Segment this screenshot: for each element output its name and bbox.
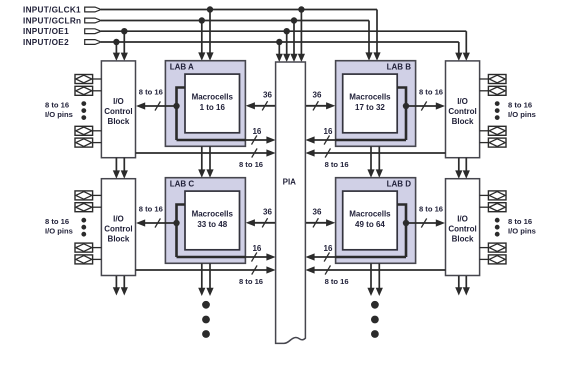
svg-text:INPUT/GLCK1: INPUT/GLCK1: [23, 5, 81, 14]
I/O pin (upper left 3): [75, 126, 101, 135]
LAB D block: [336, 178, 416, 264]
8-16 bus LAB B to I/O block: [406, 101, 445, 110]
svg-text:I/O: I/O: [457, 215, 468, 224]
dots upper left pins: [81, 101, 86, 120]
wire upper to lower I/O block (right 1): [455, 158, 462, 179]
label 8 to 16 I/O pins (lower left): [45, 217, 73, 236]
label PIA: [283, 177, 297, 186]
8-16 bus right I/O to PIA (lower): [305, 265, 445, 274]
label 8 to 16 (8-16 bus LAB A to I/O block): [139, 88, 163, 97]
wire below lower left I/O block (1): [113, 276, 120, 296]
svg-text:Control: Control: [448, 107, 476, 116]
svg-text:Macrocells: Macrocells: [349, 210, 391, 219]
wire GCLRn drop to PIA: [290, 17, 297, 62]
label 8 to 16 I/O pins (upper left): [45, 100, 73, 119]
LAB D local feedback wire: [397, 205, 406, 258]
LAB C block: [165, 178, 245, 264]
I/O pin (upper right 1): [480, 75, 506, 84]
wire OE1 drop to left I/O block: [121, 28, 128, 61]
label 16 (16 bus LAB A to PIA): [252, 127, 261, 136]
label 36 (36 bus PIA to LAB A): [263, 91, 272, 100]
wire INPUT/OE1: [101, 31, 470, 61]
8-16 bus left I/O to PIA (lower): [136, 265, 276, 274]
label 8 to 16 I/O pins (lower right): [508, 217, 536, 236]
svg-text:33 to 48: 33 to 48: [197, 220, 227, 229]
svg-text:LAB B: LAB B: [387, 62, 412, 71]
svg-text:16: 16: [324, 244, 333, 253]
I/O control block (lower left): [101, 179, 135, 276]
I/O pin (upper right 2): [480, 86, 506, 95]
8-16 bus left I/O to PIA (upper): [136, 148, 276, 157]
wire GLCK1 drop to PIA: [298, 6, 305, 62]
svg-text:Block: Block: [108, 117, 130, 126]
macrocells 49 to 64 box: [343, 191, 398, 250]
svg-text:36: 36: [263, 208, 272, 217]
wire below LAB C (2): [206, 263, 213, 296]
svg-text:8 to 16: 8 to 16: [325, 160, 349, 169]
continuation dots below LAB C: [202, 301, 210, 338]
input label INPUT/GLCK1: [23, 5, 81, 14]
svg-text:36: 36: [313, 208, 322, 217]
I/O pin (lower left 2): [75, 203, 101, 212]
I/O pin (upper left 2): [75, 86, 101, 95]
svg-text:8 to 16: 8 to 16: [139, 205, 163, 214]
label 36 (36 bus PIA to LAB C): [263, 208, 272, 217]
36 bus PIA to LAB A: [246, 101, 276, 110]
input label INPUT/OE1: [23, 27, 69, 36]
label 8 to 16 (8-16 bus LAB D to I/O block): [419, 205, 443, 214]
macrocells 17 to 32 box: [343, 74, 398, 133]
wire INPUT/GLCK1: [101, 10, 381, 61]
I/O pin (upper left 1): [75, 75, 101, 84]
wire OE1 drop to PIA: [283, 28, 290, 62]
dots lower left pins: [81, 218, 86, 237]
input label INPUT/OE2: [23, 38, 69, 47]
macrocells 1 to 16 box: [185, 74, 240, 133]
label 8 to 16 (8-16 bus left I/O to PIA (upper)): [239, 160, 263, 169]
svg-text:Macrocells: Macrocells: [192, 93, 234, 102]
36 bus PIA to LAB C: [246, 218, 276, 227]
svg-text:I/O: I/O: [113, 97, 124, 106]
16 bus LAB D to PIA: [305, 252, 406, 261]
svg-text:I/O pins: I/O pins: [508, 110, 536, 119]
label 8 to 16 (8-16 bus LAB C to I/O block): [139, 205, 163, 214]
macrocells 33 to 48 box: [185, 191, 240, 250]
svg-text:LAB A: LAB A: [170, 62, 194, 71]
I/O pin (upper left 4): [75, 138, 101, 147]
svg-text:I/O pins: I/O pins: [45, 227, 73, 236]
svg-text:49 to 64: 49 to 64: [355, 220, 385, 229]
wire LAB B to LAB D (2): [376, 146, 383, 177]
label 8 to 16 I/O pins (upper right): [508, 100, 536, 119]
svg-text:8 to 16: 8 to 16: [325, 277, 349, 286]
junction LAB B: [403, 103, 409, 109]
wire below LAB D (1): [367, 263, 374, 296]
svg-text:16: 16: [252, 244, 261, 253]
16 bus LAB A to PIA: [177, 135, 276, 144]
8-16 bus right I/O to PIA (upper): [305, 148, 445, 157]
input pin INPUT/OE1: [85, 29, 101, 34]
label 16 (16 bus LAB C to PIA): [252, 244, 261, 253]
wire GCLRn drop to LAB A: [198, 17, 205, 60]
svg-text:PIA: PIA: [283, 177, 297, 186]
svg-text:Control: Control: [104, 107, 132, 116]
svg-text:8 to 16: 8 to 16: [419, 205, 443, 214]
svg-text:1 to 16: 1 to 16: [200, 103, 226, 112]
I/O pin (lower right 3): [480, 243, 506, 252]
svg-text:36: 36: [313, 91, 322, 100]
svg-text:INPUT/GCLRn: INPUT/GCLRn: [23, 16, 81, 25]
wire below LAB C (1): [198, 263, 205, 296]
svg-text:8 to 16: 8 to 16: [508, 100, 532, 109]
svg-text:8 to 16: 8 to 16: [239, 160, 263, 169]
svg-text:LAB D: LAB D: [387, 179, 412, 188]
svg-text:17 to 32: 17 to 32: [355, 103, 385, 112]
dots upper right pins: [495, 101, 500, 120]
svg-text:8 to 16: 8 to 16: [508, 217, 532, 226]
label 16 (16 bus LAB D to PIA): [324, 244, 333, 253]
svg-text:INPUT/OE2: INPUT/OE2: [23, 38, 69, 47]
svg-text:INPUT/OE1: INPUT/OE1: [23, 27, 69, 36]
junction LAB D: [403, 220, 409, 226]
8-16 bus LAB A to I/O block: [136, 101, 177, 110]
svg-text:8 to 16: 8 to 16: [139, 88, 163, 97]
label 8 to 16 (8-16 bus right I/O to PIA (lower)): [325, 277, 349, 286]
I/O pin (lower right 2): [480, 203, 506, 212]
36 bus PIA to LAB D: [305, 218, 335, 227]
junction LAB C: [173, 220, 179, 226]
LAB A block: [165, 61, 245, 147]
16 bus LAB B to PIA: [305, 135, 406, 144]
LAB A local feedback wire: [177, 88, 186, 141]
LAB B block: [336, 61, 416, 147]
I/O pin (lower left 4): [75, 255, 101, 264]
wire below lower right I/O block (2): [463, 276, 470, 296]
LAB C local feedback wire: [177, 205, 186, 258]
svg-text:I/O pins: I/O pins: [508, 227, 536, 236]
wire GLCK1 drop to LAB A: [206, 6, 213, 60]
junction LAB A: [173, 103, 179, 109]
I/O pin (upper right 3): [480, 126, 506, 135]
svg-text:36: 36: [263, 91, 272, 100]
svg-text:Control: Control: [104, 225, 132, 234]
continuation dots below LAB D: [371, 301, 379, 338]
LAB B local feedback wire: [397, 88, 406, 141]
label 36 (36 bus PIA to LAB B): [313, 91, 322, 100]
svg-text:I/O: I/O: [113, 215, 124, 224]
I/O pin (lower right 1): [480, 191, 506, 200]
input label INPUT/GCLRn: [23, 16, 81, 25]
I/O pin (lower left 1): [75, 191, 101, 200]
svg-text:Block: Block: [108, 235, 130, 244]
label 8 to 16 (8-16 bus LAB B to I/O block): [419, 88, 443, 97]
input pin INPUT/OE2: [85, 40, 101, 45]
I/O pin (upper right 4): [480, 138, 506, 147]
wire below lower left I/O block (2): [121, 276, 128, 296]
wire upper to lower I/O block (left 1): [113, 158, 120, 179]
svg-text:8 to 16: 8 to 16: [45, 217, 69, 226]
I/O control block (upper right): [446, 61, 480, 158]
wire OE2 drop to left I/O block: [113, 39, 120, 61]
wire below LAB D (2): [376, 263, 383, 296]
svg-text:8 to 16: 8 to 16: [419, 88, 443, 97]
svg-text:I/O pins: I/O pins: [45, 110, 73, 119]
input pin INPUT/GLCK1: [85, 7, 101, 12]
wire LAB A to LAB C (1): [198, 146, 205, 177]
8-16 bus LAB D to I/O block: [406, 218, 445, 227]
label 36 (36 bus PIA to LAB D): [313, 208, 322, 217]
svg-text:Control: Control: [448, 225, 476, 234]
svg-text:8 to 16: 8 to 16: [239, 277, 263, 286]
label 8 to 16 (8-16 bus left I/O to PIA (lower)): [239, 277, 263, 286]
36 bus PIA to LAB B: [305, 101, 335, 110]
svg-text:Macrocells: Macrocells: [192, 210, 234, 219]
label 16 (16 bus LAB B to PIA): [324, 127, 333, 136]
I/O control block (upper left): [101, 61, 135, 158]
svg-text:I/O: I/O: [457, 97, 468, 106]
dots lower right pins: [495, 218, 500, 237]
input pin INPUT/GCLRn: [85, 18, 101, 23]
svg-text:LAB C: LAB C: [170, 179, 195, 188]
wire OE2 drop to PIA: [276, 39, 283, 62]
wire below lower right I/O block (1): [455, 276, 462, 296]
svg-text:16: 16: [252, 127, 261, 136]
I/O pin (lower left 3): [75, 243, 101, 252]
I/O control block (lower right): [446, 179, 480, 276]
PIA block: [276, 62, 306, 343]
label 8 to 16 (8-16 bus right I/O to PIA (upper)): [325, 160, 349, 169]
svg-text:8 to 16: 8 to 16: [45, 100, 69, 109]
svg-text:Macrocells: Macrocells: [349, 93, 391, 102]
svg-text:16: 16: [324, 127, 333, 136]
wire LAB A to LAB C (2): [206, 146, 213, 177]
svg-text:Block: Block: [452, 117, 474, 126]
wire upper to lower I/O block (left 2): [121, 158, 128, 179]
16 bus LAB C to PIA: [177, 252, 276, 261]
wire INPUT/GCLRn: [101, 21, 373, 61]
svg-text:Block: Block: [452, 235, 474, 244]
wire LAB B to LAB D (1): [367, 146, 374, 177]
8-16 bus LAB C to I/O block: [136, 218, 177, 227]
wire INPUT/OE2: [101, 42, 462, 61]
wire upper to lower I/O block (right 2): [463, 158, 470, 179]
I/O pin (lower right 4): [480, 255, 506, 264]
